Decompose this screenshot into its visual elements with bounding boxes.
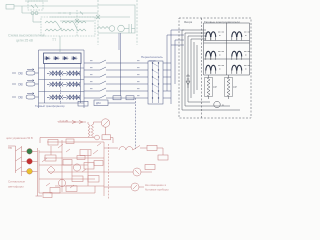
svg-text:цепи управления 50 В: цепи управления 50 В	[6, 136, 33, 140]
svg-text:ОВ: ОВ	[18, 95, 23, 99]
svg-text:бытовые приборы: бытовые приборы	[145, 188, 169, 192]
svg-text:СР: СР	[233, 85, 237, 89]
svg-text:хода: хода	[149, 58, 156, 62]
svg-text:ОВ: ОВ	[18, 71, 23, 75]
svg-text:Якоря: Якоря	[184, 20, 193, 24]
svg-text:Тяговый трансформатор: Тяговый трансформатор	[35, 104, 65, 108]
svg-text:СР: СР	[213, 85, 217, 89]
svg-text:~ 0,4 кВ: ~ 0,4 кВ	[57, 119, 68, 123]
svg-text:А: А	[222, 103, 224, 107]
svg-text:светофоры: светофоры	[8, 185, 24, 189]
svg-text:Схема высоковольтной: Схема высоковольтной	[8, 34, 45, 38]
svg-text:ПВ: ПВ	[8, 146, 12, 150]
svg-text:цепи 25 кВ: цепи 25 кВ	[16, 39, 34, 43]
svg-text:ТТ: ТТ	[52, 38, 56, 42]
svg-text:На освещение и: На освещение и	[145, 183, 167, 187]
svg-text:Тяговые электродвигатели: Тяговые электродвигатели	[204, 20, 240, 24]
svg-text:ОВ: ОВ	[18, 82, 23, 86]
svg-text:Сигнальные: Сигнальные	[8, 180, 25, 184]
svg-text:ДМ: ДМ	[96, 101, 101, 105]
